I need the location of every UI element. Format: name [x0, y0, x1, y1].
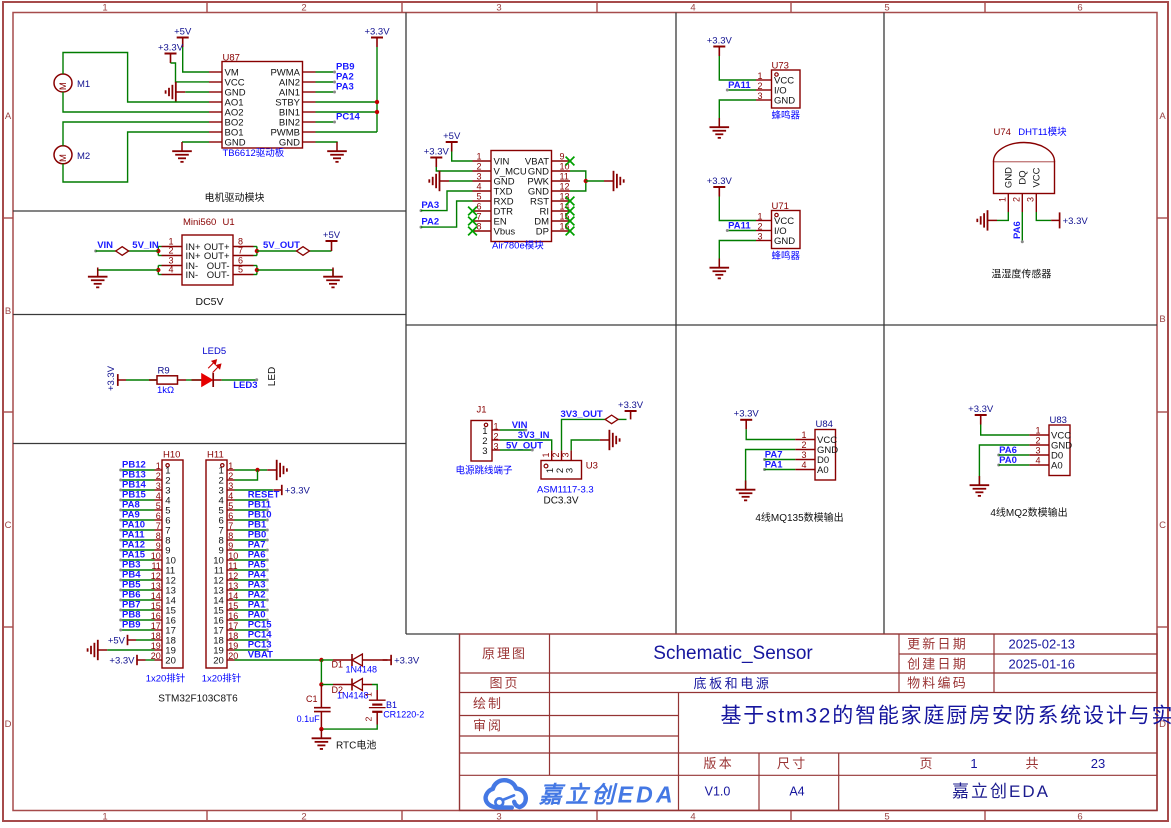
wire H11 pin 18 to PC14	[235, 639, 268, 641]
ground (Mini560 OUT-)	[323, 268, 343, 288]
svg-text:图页: 图页	[489, 676, 519, 691]
wire H10 pin 11 to PB3	[121, 569, 155, 571]
node PB6 (H10 pin 14)	[119, 590, 140, 602]
svg-text:1: 1	[102, 812, 107, 823]
wire J1 pin2 3V3_IN to U3	[500, 440, 552, 450]
node PA5 (H11 pin 11)	[248, 560, 269, 572]
ground (U87 GND pin8)	[172, 142, 192, 162]
wire H11 pin 19 to PC13	[235, 649, 268, 651]
wire U87 BIN2 to PC14	[316, 121, 335, 123]
wire U87 AIN2 to PA2	[316, 81, 335, 83]
svg-text:J1: J1	[477, 405, 487, 416]
wire H10 pin 1 to PB12	[121, 469, 155, 471]
header H11 1x20	[206, 450, 238, 669]
ground (U84)	[736, 481, 756, 501]
svg-text:7: 7	[476, 212, 481, 222]
svg-text:11: 11	[560, 172, 569, 182]
svg-text:绘制: 绘制	[473, 696, 503, 711]
chip U1 Mini560	[162, 217, 254, 285]
wire +5V to Air780e VIN	[452, 152, 473, 162]
ground (DHT11, sideways)	[977, 210, 997, 230]
svg-text:V1.0: V1.0	[705, 784, 731, 798]
ground (U87 GND right)	[327, 142, 347, 162]
svg-text:基于stm32的智能家庭厨房安防系统设计与实现: 基于stm32的智能家庭厨房安防系统设计与实现	[721, 705, 1171, 728]
svg-text:2: 2	[364, 716, 374, 721]
wire PA0 to U83 A0	[999, 464, 1030, 466]
section divider vertical middle	[675, 13, 677, 635]
node PA11 (U71)	[726, 221, 752, 232]
net port diamond 5V_OUT	[297, 247, 310, 256]
svg-text:1: 1	[228, 461, 233, 471]
section divider horizontal motor/dc5v	[13, 210, 406, 212]
wire J1 pin3 5V_OUT	[500, 449, 532, 451]
node PA0 (U83 A0)	[997, 455, 1017, 466]
power flag +3.3V (LED, rotated)	[106, 365, 126, 391]
node PA6 (H11 pin 10)	[248, 550, 269, 562]
wire to diode D1	[321, 659, 333, 661]
node PC14 (H11 pin 18)	[248, 630, 272, 642]
svg-text:+3.3V: +3.3V	[109, 655, 135, 666]
svg-text:物料编码: 物料编码	[907, 676, 968, 691]
junction D2/C1	[319, 682, 323, 686]
svg-text:嘉立创EDA: 嘉立创EDA	[952, 782, 1050, 801]
wire H11 pin 15 to PA1	[235, 609, 268, 611]
wire H10 pin 14 to PB6	[121, 599, 155, 601]
svg-text:3: 3	[496, 812, 501, 823]
ground (H10 pin 19)	[88, 640, 108, 660]
no-connect X Air780e DP	[566, 227, 575, 236]
svg-text:2: 2	[551, 452, 561, 457]
buzzer U71	[756, 201, 800, 249]
wire H10 pin 10 to PA15	[121, 559, 155, 561]
wire +3.3V to Air780e V_MCU	[436, 167, 472, 171]
wire H10 pin 5 to PA8	[121, 509, 155, 511]
svg-text:2025-02-13: 2025-02-13	[1009, 637, 1076, 652]
node PA2 (H11 pin 14)	[248, 590, 269, 602]
wire PA11 to U71 I/O	[727, 230, 756, 232]
svg-text:3: 3	[494, 442, 499, 452]
svg-text:M1: M1	[77, 79, 90, 90]
svg-text:5V_IN: 5V_IN	[132, 240, 159, 251]
node PB15 (H10 pin 4)	[119, 490, 146, 502]
logo JLCEDA cloud	[486, 780, 526, 807]
junction OUT+	[255, 249, 259, 253]
svg-text:VCC: VCC	[1032, 167, 1043, 187]
svg-text:原理图: 原理图	[482, 646, 527, 661]
power flag +3.3V (U84)	[734, 409, 760, 430]
wire +3.3V to R9	[126, 379, 157, 381]
motor M2	[54, 146, 72, 164]
frame column ticks top	[206, 2, 208, 13]
svg-text:3: 3	[156, 481, 161, 491]
svg-text:ASM1117-3.3: ASM1117-3.3	[537, 484, 594, 495]
wire H11 pin 12 to PA4	[235, 579, 268, 581]
node PA2	[333, 72, 354, 84]
svg-text:4线MQ2数模输出: 4线MQ2数模输出	[990, 506, 1067, 519]
node LED3	[233, 378, 258, 391]
svg-text:3: 3	[476, 172, 481, 182]
svg-text:8: 8	[228, 531, 233, 541]
header H10 pin stubs and numbers	[155, 469, 163, 471]
svg-text:审阅: 审阅	[473, 718, 503, 733]
junction STBY	[375, 100, 379, 104]
svg-text:5: 5	[476, 192, 481, 202]
svg-text:更新日期: 更新日期	[907, 637, 968, 652]
wire DHT11 GND to ground	[997, 212, 1008, 220]
svg-text:C: C	[1159, 520, 1166, 531]
svg-text:5: 5	[884, 3, 889, 14]
svg-text:2: 2	[494, 432, 499, 442]
wire H10 pin 12 to PB4	[121, 579, 155, 581]
svg-text:OUT-: OUT-	[207, 270, 230, 281]
ground (H11 pin 1, sideways)	[267, 460, 287, 480]
svg-text:嘉立创EDA: 嘉立创EDA	[538, 782, 676, 808]
wire PA11 to U73 I/O	[727, 89, 756, 91]
no-connect X Air780e RST	[566, 197, 575, 206]
svg-text:+3.3V: +3.3V	[968, 404, 994, 415]
buzzer U73	[756, 61, 800, 109]
svg-text:GND: GND	[225, 137, 246, 148]
ground (U3 right)	[600, 430, 620, 450]
node PA2 (Air780e RXD)	[420, 217, 440, 229]
svg-text:1: 1	[156, 461, 161, 471]
wire bracket IN+ pins 1-2	[158, 247, 161, 256]
wire H11 pin 8 to PB0	[235, 539, 268, 541]
svg-text:M2: M2	[77, 151, 90, 162]
no-connect X Air780e DM	[566, 217, 575, 226]
node PB14 (H10 pin 3)	[119, 480, 146, 492]
power flag +5V (H10 pin 18)	[108, 635, 136, 647]
svg-text:4: 4	[168, 265, 173, 275]
node PA9 (H10 pin 6)	[119, 510, 140, 522]
svg-text:CR1220-2: CR1220-2	[383, 709, 424, 719]
svg-text:23: 23	[1091, 756, 1105, 771]
svg-text:+3.3V: +3.3V	[707, 176, 733, 187]
ground (Mini560 IN-)	[88, 268, 108, 288]
svg-text:4线MQ135数模输出: 4线MQ135数模输出	[755, 511, 843, 524]
wire bracket OUT- pins 5-6	[254, 266, 257, 275]
svg-text:2: 2	[801, 440, 806, 450]
junction OUT-	[255, 268, 259, 272]
svg-text:蜂鸣器: 蜂鸣器	[772, 110, 801, 122]
node 5V_OUT (J1)	[506, 441, 543, 452]
svg-text:+3.3V: +3.3V	[158, 42, 184, 53]
wire +3.3V to STBY/BIN1/PWMB	[376, 47, 378, 132]
svg-text:4: 4	[801, 460, 806, 470]
svg-text:+3.3V: +3.3V	[1063, 216, 1089, 227]
wire ground to U87 GND pin3	[185, 91, 209, 93]
svg-text:GND: GND	[279, 137, 300, 148]
svg-text:6: 6	[228, 511, 233, 521]
wire R9 to LED5	[186, 379, 202, 381]
svg-text:1: 1	[757, 71, 762, 81]
no-connect X Air780e VBAT	[566, 157, 575, 166]
frame column ticks bottom	[206, 811, 208, 822]
svg-text:Schematic_Sensor: Schematic_Sensor	[653, 643, 813, 664]
svg-text:4: 4	[476, 182, 481, 192]
chip U83 MQ2	[1029, 415, 1072, 476]
power flag +5V (dc5v out)	[323, 230, 341, 251]
svg-text:+3.3V: +3.3V	[734, 409, 760, 420]
wire H11 pin 17 to PC15	[235, 629, 268, 631]
wire H11 pin 6 to PB10	[235, 519, 268, 521]
wire Air780e GND10/GND12 bracket	[570, 171, 586, 191]
svg-text:+5V: +5V	[108, 635, 126, 646]
battery B1 CR1220-2	[364, 690, 386, 725]
node PC15 (H11 pin 17)	[248, 620, 272, 632]
node VIN (J1)	[512, 420, 528, 432]
node PB12 (H10 pin 1)	[119, 460, 146, 472]
wire ground to Air780e GND pin3	[449, 180, 473, 182]
svg-text:2: 2	[1035, 436, 1040, 446]
svg-text:3: 3	[228, 481, 233, 491]
svg-text:PA3: PA3	[336, 82, 354, 93]
svg-text:1x20排针: 1x20排针	[146, 673, 186, 685]
node PA12 (H10 pin 9)	[119, 540, 145, 552]
svg-text:5: 5	[156, 501, 161, 511]
svg-text:PB9: PB9	[122, 620, 140, 631]
svg-text:GND: GND	[1004, 167, 1015, 188]
wire PA1 to U84 A0	[765, 469, 796, 471]
node PA11 (U73)	[726, 80, 752, 91]
diode D1 1N4148	[332, 654, 388, 670]
svg-text:A: A	[1159, 111, 1166, 122]
svg-text:Vbus: Vbus	[494, 226, 516, 237]
wire H10 pin 2 to PB13	[121, 479, 155, 481]
svg-text:A4: A4	[789, 784, 804, 798]
wire ground to IN-	[98, 270, 159, 277]
svg-text:VIN: VIN	[97, 240, 113, 251]
svg-text:2: 2	[1011, 197, 1021, 202]
header H11 pin stubs and numbers	[227, 469, 235, 471]
wire H11 pin 20 VBAT	[235, 659, 322, 661]
svg-text:底板和电源: 底板和电源	[693, 676, 771, 691]
svg-text:3: 3	[1025, 197, 1035, 202]
section divider vertical right	[883, 13, 885, 635]
node PA10 (H10 pin 7)	[119, 520, 145, 532]
wire U3 pin2 3V3_OUT	[562, 419, 627, 450]
sensor U74 DHT11	[994, 127, 1055, 212]
wire bracket OUT+ pins 7-8	[254, 247, 257, 256]
wire LED5 to LED3	[222, 379, 257, 381]
wire ground to H10 pin 19	[107, 649, 154, 651]
node PC13 (H11 pin 19)	[248, 640, 272, 652]
chip U87 TB6612	[209, 53, 316, 149]
svg-text:3V3_IN: 3V3_IN	[518, 430, 550, 441]
power flag +3.3V (H10 pin 20)	[109, 655, 145, 667]
node PB11 (H11 pin 5)	[248, 500, 272, 512]
diode D2 1N4148	[332, 679, 373, 695]
svg-text:温湿度传感器: 温湿度传感器	[991, 268, 1051, 281]
node PB5 (H10 pin 13)	[119, 580, 141, 592]
wire VBAT junction down to D2/C1	[320, 660, 322, 685]
svg-text:1x20排针: 1x20排针	[202, 673, 242, 685]
svg-text:0.1uF: 0.1uF	[297, 714, 321, 724]
svg-text:8: 8	[476, 222, 481, 232]
wire M2 bottom to U87 BO1	[63, 132, 209, 182]
svg-text:5: 5	[238, 265, 243, 275]
node PA4 (H11 pin 12)	[248, 570, 269, 582]
svg-text:1: 1	[997, 197, 1007, 202]
wire H11 pin 9 to PA7	[235, 549, 268, 551]
junction VBAT/D1	[319, 658, 323, 662]
led LED5	[192, 360, 222, 387]
svg-text:9: 9	[560, 152, 565, 162]
wire U87 STBY	[316, 101, 378, 103]
svg-text:12: 12	[560, 182, 570, 192]
node PB3 (H10 pin 11)	[119, 560, 140, 572]
wire PA2 to Air780e RXD	[421, 201, 473, 227]
node PA11 (H10 pin 8)	[119, 530, 145, 542]
wire U83 GND to ground	[979, 445, 1029, 485]
node RESET (H11 pin 4)	[248, 490, 280, 502]
svg-text:1: 1	[757, 212, 762, 222]
title block grid	[460, 634, 1158, 810]
wire +3.3V to U71 VCC	[719, 197, 756, 221]
wire H10 pin 3 to PB14	[121, 489, 155, 491]
wire +3.3V to H10 pin 20	[146, 659, 155, 661]
node PB9 (H10 pin 17)	[119, 620, 140, 632]
svg-text:电机驱动模块: 电机驱动模块	[205, 191, 265, 204]
svg-text:3V3_OUT: 3V3_OUT	[561, 409, 603, 420]
svg-text:VBAT: VBAT	[248, 650, 273, 661]
svg-text:B: B	[5, 306, 11, 317]
wire U3 pin3 to ground	[571, 440, 600, 450]
section divider horizontal above title block	[406, 633, 460, 635]
node PA1 (H11 pin 15)	[248, 600, 269, 612]
power flag +3.3V (U71)	[707, 176, 733, 197]
svg-text:PA11: PA11	[728, 221, 751, 232]
wire H10 pin 7 to PA10	[121, 529, 155, 531]
svg-text:LED5: LED5	[202, 346, 226, 357]
svg-text:+5V: +5V	[443, 131, 461, 142]
no-connect X Air780e RI	[566, 207, 575, 216]
wire +5V to H10 pin 18	[136, 639, 155, 641]
node PB1 (H11 pin 7)	[248, 520, 269, 532]
wire H11 pin 13 to PA3	[235, 589, 268, 591]
connector J1	[471, 405, 500, 462]
junction IN+	[156, 249, 160, 253]
wire U71 GND to ground	[719, 241, 756, 268]
wire U87 GND right to ground	[316, 141, 338, 144]
ground (Air780e GND left)	[429, 171, 449, 191]
wire PA3 to Air780e TXD	[421, 191, 473, 211]
section divider vertical left column	[405, 13, 407, 635]
wire DHT11 DQ to PA6	[1021, 212, 1023, 242]
node VIN	[94, 240, 113, 253]
power flag +3.3V (H11 pin 3)	[273, 485, 310, 497]
wire H11 pin 14 to PA2	[235, 599, 268, 601]
svg-text:A: A	[5, 111, 12, 122]
svg-text:+5V: +5V	[174, 26, 192, 37]
power flag +3.3V (U83)	[968, 404, 994, 425]
svg-text:7: 7	[228, 521, 233, 531]
svg-text:+3.3V: +3.3V	[394, 655, 420, 666]
wire H11 pin 11 to PA5	[235, 569, 268, 571]
no-connect X Air780e DTR	[468, 207, 477, 216]
wire bracket IN- pins 3-4	[158, 266, 161, 275]
junction IN-	[156, 268, 160, 272]
wire U84 GND to ground	[746, 450, 796, 490]
svg-text:U3: U3	[586, 461, 598, 472]
svg-text:2: 2	[476, 162, 481, 172]
svg-text:9: 9	[156, 541, 161, 551]
svg-text:A0: A0	[817, 465, 829, 476]
wire U87 PWMB	[316, 131, 378, 133]
wire H10 pin 4 to PB15	[121, 499, 155, 501]
wire H11 pin1 junction to pin 2	[235, 470, 258, 480]
wire M1 top to U87 AO1	[63, 53, 209, 103]
header H10 1x20	[151, 450, 183, 669]
svg-text:R9: R9	[158, 366, 170, 377]
wire H11 pin 7 to PB1	[235, 529, 268, 531]
svg-text:7: 7	[238, 246, 243, 256]
junction C1/battery ground	[319, 727, 323, 731]
svg-text:D: D	[5, 719, 12, 730]
svg-text:20: 20	[213, 655, 224, 666]
power flag +5V (Air780e)	[443, 131, 461, 152]
svg-text:U1: U1	[223, 217, 235, 228]
svg-text:B1: B1	[386, 700, 397, 710]
svg-text:DC5V: DC5V	[195, 296, 223, 308]
svg-text:+3.3V: +3.3V	[106, 365, 117, 391]
ground (U71)	[710, 259, 730, 279]
svg-text:M: M	[58, 82, 69, 90]
svg-text:2: 2	[228, 471, 233, 481]
frame row ticks left	[3, 217, 13, 219]
svg-text:2: 2	[757, 81, 762, 91]
section divider horizontal dc5v/led	[13, 314, 406, 316]
svg-text:6: 6	[1077, 812, 1082, 823]
svg-text:2: 2	[301, 3, 306, 14]
svg-text:LED3: LED3	[233, 380, 257, 391]
svg-text:5V_OUT: 5V_OUT	[506, 441, 543, 452]
svg-text:B: B	[1159, 314, 1165, 325]
svg-text:RTC电池: RTC电池	[336, 739, 376, 752]
svg-text:PA6: PA6	[1012, 221, 1023, 239]
svg-text:IN-: IN-	[186, 270, 199, 281]
power flag +3.3V (motor right)	[364, 26, 390, 47]
section divider horizontal middle row	[406, 324, 1157, 326]
wire H11 pin 5 to PB11	[235, 509, 268, 511]
svg-text:1kΩ: 1kΩ	[157, 385, 174, 396]
junction BIN1	[375, 110, 379, 114]
svg-text:+3.3V: +3.3V	[707, 35, 733, 46]
wire +3.3V to U87 VCC	[171, 63, 210, 82]
svg-text:页: 页	[919, 756, 932, 771]
svg-text:U84: U84	[816, 419, 833, 430]
node PB9	[333, 62, 354, 74]
svg-text:LED: LED	[267, 367, 278, 386]
ground (U87 GND left)	[166, 82, 186, 102]
svg-text:7: 7	[156, 521, 161, 531]
wire +3.3V to U83 VCC	[981, 425, 1030, 436]
node PA6 (U83 D0)	[997, 445, 1017, 456]
svg-text:3: 3	[757, 232, 762, 242]
wire PA6 to U83 D0	[999, 454, 1030, 456]
wire DHT11 VCC to +3.3V	[1036, 212, 1051, 220]
power flag +5V (motor)	[174, 26, 192, 47]
svg-text:2: 2	[168, 246, 173, 256]
svg-text:尺寸: 尺寸	[777, 756, 808, 771]
wire PA7 to U84 D0	[765, 459, 796, 461]
wire U87 BIN1	[316, 111, 378, 113]
wire H11 pin 1 to ground	[235, 469, 268, 471]
node PA3 (H11 pin 13)	[248, 580, 269, 592]
svg-text:U74: U74	[994, 127, 1011, 138]
junction H11 pin1	[255, 468, 259, 472]
node PA3 (Air780e TXD)	[420, 200, 440, 212]
